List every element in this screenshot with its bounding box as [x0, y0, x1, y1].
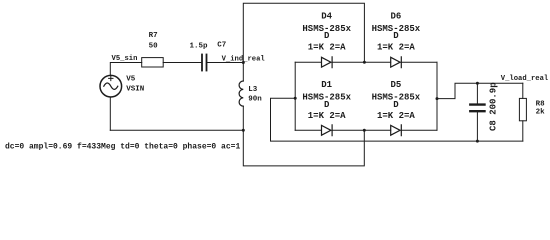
- svg-text:dc=0 ampl=0.69 f=433Meg td=0 t: dc=0 ampl=0.69 f=433Meg td=0 theta=0 pha…: [5, 143, 240, 152]
- svg-text:D: D: [324, 100, 330, 110]
- wire V_ind_real down to L3: [242, 63, 244, 82]
- svg-text:D5: D5: [390, 80, 401, 90]
- svg-text:90n: 90n: [248, 96, 262, 104]
- bridge right side: [436, 62, 438, 130]
- node C8 bottom dot: [476, 140, 479, 143]
- node V_ind_real dot: [242, 61, 245, 64]
- svg-text:VSIN: VSIN: [126, 85, 144, 93]
- svg-text:1=K 2=A: 1=K 2=A: [377, 42, 415, 52]
- inductor L3 coil: [239, 81, 243, 106]
- wire R8 top stub: [522, 83, 524, 98]
- wire source return bottom: [110, 129, 243, 131]
- svg-text:1=K 2=A: 1=K 2=A: [308, 42, 346, 52]
- node C8 top dot: [476, 82, 479, 85]
- bridge top side middle segment: [332, 61, 391, 63]
- diode D5: [391, 125, 402, 136]
- svg-text:1.5p: 1.5p: [190, 42, 209, 50]
- wire bridge mid-right to load: [437, 83, 523, 98]
- bridge left side: [294, 62, 296, 130]
- bridge bottom side left segment: [295, 129, 321, 131]
- bridge top side left segment (anode wire of D4): [295, 61, 321, 63]
- wire C8 bottom stub: [476, 112, 478, 141]
- svg-text:D4: D4: [321, 12, 332, 22]
- bridge bottom side right segment: [401, 129, 437, 131]
- svg-text:D: D: [393, 31, 399, 41]
- wire L3 bottom: [242, 106, 244, 130]
- wire C7 to V_ind_real node: [207, 62, 243, 64]
- svg-text:1=K 2=A: 1=K 2=A: [377, 111, 415, 121]
- wire input top from source stub to R7: [110, 63, 141, 76]
- wire C8 top stub: [476, 83, 478, 103]
- node bridge mid-bottom dot: [363, 129, 366, 132]
- wire ground jog down right up to bridge mid-bottom: [243, 130, 364, 166]
- svg-text:D6: D6: [390, 12, 401, 22]
- bridge bottom side middle segment: [332, 129, 391, 131]
- node L3 bottom dot: [242, 129, 245, 132]
- diode D6: [391, 57, 402, 68]
- resistor R7 body: [142, 58, 164, 67]
- voltage source V5 circle: [100, 75, 122, 97]
- node bridge mid-right dot: [436, 97, 439, 100]
- svg-text:L3: L3: [248, 86, 258, 94]
- svg-text:1=K 2=A: 1=K 2=A: [308, 111, 346, 121]
- wire V_ind_real vertical to top rail: [243, 3, 364, 62]
- svg-text:2k: 2k: [536, 108, 546, 116]
- wire source bottom stub: [109, 97, 111, 130]
- V5 sine wave: [104, 83, 118, 89]
- diode D4: [322, 57, 333, 68]
- svg-text:V_load_real: V_load_real: [501, 75, 549, 83]
- svg-text:V5: V5: [126, 75, 136, 83]
- svg-text:C7: C7: [217, 42, 226, 50]
- diode D1: [322, 125, 333, 136]
- svg-text:R8: R8: [536, 101, 546, 109]
- V5 plus sign: [109, 76, 113, 80]
- capacitor C8 plates: [470, 103, 484, 105]
- svg-text:C8 200.9p: C8 200.9p: [489, 82, 499, 131]
- svg-text:D: D: [393, 100, 399, 110]
- wire bridge mid-left to ground rail: [271, 98, 523, 141]
- svg-text:D: D: [324, 31, 330, 41]
- svg-text:R7: R7: [149, 32, 158, 40]
- wire R8 bottom stub: [522, 121, 524, 141]
- svg-text:V5_sin: V5_sin: [112, 55, 138, 63]
- node bridge mid-top dot: [363, 61, 366, 64]
- bridge top side right segment: [401, 61, 437, 63]
- svg-text:50: 50: [149, 42, 159, 50]
- node bridge mid-left dot: [294, 97, 297, 100]
- resistor R8 body: [519, 98, 526, 120]
- svg-text:D1: D1: [321, 80, 332, 90]
- capacitor C7 plates: [201, 55, 203, 71]
- svg-text:V_ind_real: V_ind_real: [222, 56, 266, 64]
- wire R7 to C7: [163, 62, 201, 64]
